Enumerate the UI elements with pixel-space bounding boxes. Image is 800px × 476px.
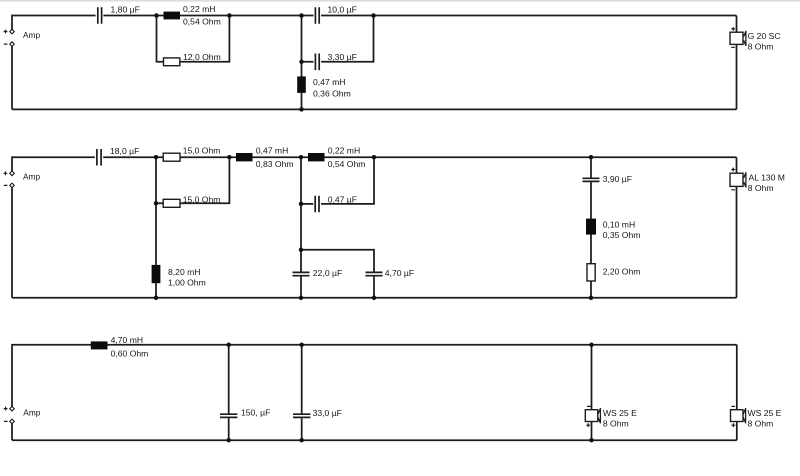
svg-text:8 Ohm: 8 Ohm: [748, 419, 774, 429]
svg-text:4,70 µF: 4,70 µF: [385, 268, 414, 278]
capacitor C3 3,30 uF: [315, 54, 319, 71]
wire: right shunt vertical (3,90uF chain): [590, 157, 592, 298]
svg-text:Amp: Amp: [23, 408, 40, 418]
svg-text:0,22 mH: 0,22 mH: [328, 145, 360, 155]
wire: bottom rail: [12, 439, 737, 441]
node C: [299, 155, 304, 160]
svg-text:12,0 Ohm: 12,0 Ohm: [183, 52, 221, 62]
node on left shunt: [154, 201, 159, 206]
node on shunt at C3 branch: [299, 60, 304, 65]
svg-text:0,47 µF: 0,47 µF: [328, 194, 357, 204]
svg-text:0,47 mH: 0,47 mH: [313, 77, 345, 87]
node A: [154, 13, 159, 18]
svg-text:10,0 µF: 10,0 µF: [328, 5, 357, 15]
capacitor C5 0,47 uF: [315, 196, 319, 213]
inductor L7 4,70 mH: [91, 341, 108, 349]
node after R loop: [227, 155, 232, 160]
wire: top rail left segment (amp+ to C4): [12, 157, 95, 171]
svg-text:0,10 mH: 0,10 mH: [603, 220, 635, 230]
wire: left shunt vertical (R loop + 8,20mH): [155, 157, 157, 298]
wire: R1 parallel loop: [157, 16, 230, 62]
wire: WS1 speaker drop: [591, 345, 593, 440]
wire: left rail down from amp-: [11, 424, 13, 440]
wire: 33uF shunt: [301, 345, 303, 440]
node on bottom rail: [299, 107, 304, 112]
svg-text:3,30 µF: 3,30 µF: [328, 52, 357, 62]
resistor R1 12,0 Ohm: [164, 58, 180, 66]
capacitor C6 22,0 uF: [293, 272, 310, 275]
svg-text:15,0 Ohm: 15,0 Ohm: [183, 194, 221, 204]
svg-text:Amp: Amp: [23, 172, 40, 182]
node G: [299, 343, 304, 348]
svg-text:8 Ohm: 8 Ohm: [748, 183, 774, 193]
nodes on bottom rail: [226, 438, 231, 443]
resistor R2 15,0 Ohm upper: [163, 153, 180, 161]
svg-text:33,0 µF: 33,0 µF: [313, 408, 342, 418]
wire: 150uF shunt: [228, 345, 230, 440]
svg-text:0,54 Ohm: 0,54 Ohm: [328, 159, 366, 169]
capacitor C8 3,90 uF: [583, 178, 600, 181]
node on mid shunt at cap pair branch: [299, 248, 304, 253]
wire: lower 15 Ohm branch: [156, 157, 229, 203]
svg-text:22,0 µF: 22,0 µF: [313, 268, 342, 278]
inductor L2 0,47 mH vertical: [297, 76, 306, 93]
svg-text:8 Ohm: 8 Ohm: [603, 419, 629, 429]
svg-text:8 Ohm: 8 Ohm: [748, 42, 774, 52]
svg-text:0,83 Ohm: 0,83 Ohm: [256, 159, 294, 169]
svg-text:8,20 mH: 8,20 mH: [168, 267, 200, 277]
svg-text:AL 130 M: AL 130 M: [749, 172, 785, 182]
wire: top rail right segment (C2 to speaker corner): [321, 15, 736, 17]
wire: top rail right segment: [103, 156, 736, 158]
svg-text:0,54 Ohm: 0,54 Ohm: [183, 17, 221, 27]
wire: shunt vertical at node B: [301, 16, 303, 110]
svg-text:0,36 Ohm: 0,36 Ohm: [313, 88, 351, 98]
capacitor C7 4,70 uF: [366, 272, 383, 275]
capacitor C10 33,0 uF: [293, 414, 310, 417]
node D: [372, 155, 377, 160]
amp source terminals: [10, 406, 15, 411]
capacitor C4 18,0 uF: [97, 149, 101, 166]
svg-text:0,22 mH: 0,22 mH: [183, 4, 215, 14]
wire: speaker drop: [736, 157, 738, 298]
loudspeaker WS 25 E first: [585, 410, 598, 422]
svg-text:150, µF: 150, µF: [241, 408, 270, 418]
loudspeaker AL 130 M: [730, 173, 743, 186]
inductor L5 8,20 mH vertical: [152, 265, 161, 283]
node after C2 loop: [371, 13, 376, 18]
inductor L1 0,22 mH: [164, 12, 181, 20]
wire: C3 branch horizontal: [302, 16, 374, 62]
capacitor C9 150 uF: [220, 414, 237, 417]
svg-text:0,60 Ohm: 0,60 Ohm: [111, 348, 149, 358]
capacitor C2 10,0 uF: [315, 7, 319, 24]
svg-text:G 20 SC: G 20 SC: [748, 31, 781, 41]
wire: 0,47uF branch: [301, 157, 374, 204]
node after loop: [227, 13, 232, 18]
svg-text:Amp: Amp: [23, 30, 40, 40]
wire: left rail down from amp-: [11, 46, 13, 109]
svg-text:2,20 Ohm: 2,20 Ohm: [603, 266, 641, 276]
resistor R3 15,0 Ohm lower: [163, 199, 180, 207]
svg-text:1,80 µF: 1,80 µF: [111, 5, 140, 15]
svg-text:1,00 Ohm: 1,00 Ohm: [168, 277, 206, 287]
wire: mid shunt vertical: [300, 157, 302, 298]
svg-text:WS 25 E: WS 25 E: [748, 408, 782, 418]
svg-text:18,0 µF: 18,0 µF: [110, 146, 139, 156]
wire: speaker drop: [736, 16, 738, 110]
resistor R4 2,20 Ohm vertical: [587, 264, 595, 281]
node E: [589, 155, 594, 160]
svg-text:0,35 Ohm: 0,35 Ohm: [603, 230, 641, 240]
svg-text:3,90 µF: 3,90 µF: [603, 174, 632, 184]
loudspeaker WS 25 E second: [731, 410, 744, 422]
wire: left rail down from amp-: [11, 188, 13, 298]
wire: top rail left segment (amp+ to C1): [12, 16, 96, 30]
wire: bottom rail: [12, 297, 737, 299]
loudspeaker G 20 SC: [730, 32, 743, 44]
amp source terminals: [10, 29, 15, 34]
svg-text:15,0 Ohm: 15,0 Ohm: [183, 145, 221, 155]
inductor L6 0,10 mH vertical: [586, 219, 596, 235]
wire: bottom rail: [12, 108, 737, 110]
amp source terminals: [10, 171, 15, 176]
node on mid shunt at C5 branch: [299, 202, 304, 207]
node F: [226, 343, 231, 348]
svg-text:WS 25 E: WS 25 E: [603, 408, 637, 418]
wire: top rail: [12, 345, 737, 407]
svg-text:0,47 mH: 0,47 mH: [256, 145, 288, 155]
wire: 22uF/4,7uF branch: [301, 250, 374, 298]
svg-text:4,70 mH: 4,70 mH: [111, 335, 143, 345]
inductor L4 0,22 mH: [308, 153, 325, 161]
node B: [299, 13, 304, 18]
node A2: [154, 155, 159, 160]
wire: WS2 speaker drop: [736, 345, 738, 440]
wire: top rail middle segment (C1 to C2): [103, 15, 313, 17]
inductor L3 0,47 mH: [236, 153, 253, 161]
node H: [589, 343, 594, 348]
nodes on bottom rail: [154, 296, 159, 301]
capacitor C1 1,80 uF: [98, 7, 102, 24]
